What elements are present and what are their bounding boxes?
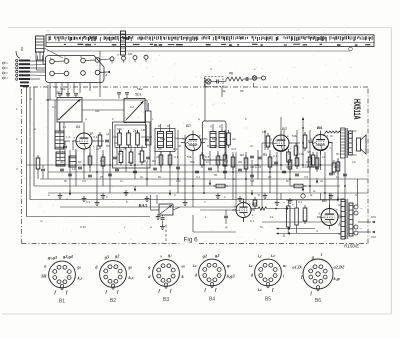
svg-text:1M: 1M (250, 179, 255, 183)
tube B6 (rectifier) (321, 209, 338, 226)
wire gang link (82, 109, 124, 111)
svg-text:8n: 8n (64, 179, 68, 183)
resistor R41 (101, 157, 105, 166)
resistor R50 (294, 184, 303, 188)
wire terminal drops (26, 87, 28, 217)
dial lamp L2 (252, 76, 256, 80)
resistor R10 (266, 136, 270, 147)
resistor R40b (98, 135, 102, 146)
svg-text:HX511A: HX511A (352, 99, 362, 120)
resistor R43 (216, 156, 220, 165)
resistor R40 (88, 156, 92, 165)
svg-text:g3: g3 (104, 255, 110, 260)
tuning capacitor gang C1b (124, 99, 145, 123)
resistor R47 (315, 158, 319, 167)
svg-text:0,1: 0,1 (93, 135, 98, 139)
capacitor C20 (68, 173, 72, 175)
dial lamp L3 (262, 76, 266, 80)
svg-text:0,1: 0,1 (196, 175, 201, 179)
svg-text:2M: 2M (238, 160, 243, 164)
wires lamp circuit drops (208, 87, 210, 88)
resistor R13 (303, 135, 307, 148)
resistor R15 (311, 155, 315, 165)
svg-text:2n: 2n (140, 175, 144, 179)
capacitor C41 (78, 166, 82, 168)
svg-text:i.c: i.c (249, 263, 253, 268)
svg-text:R150/E: R150/E (344, 244, 360, 249)
wires dial drum to switch (36, 60, 38, 70)
svg-text:50k: 50k (187, 155, 192, 159)
svg-text:3E2: 3E2 (60, 87, 66, 91)
svg-text:8: 8 (283, 234, 285, 238)
coupling coil L5 (69, 156, 76, 167)
wires around B5 (200, 209, 236, 211)
svg-text:5E3: 5E3 (160, 137, 166, 141)
wire osc area (59, 122, 61, 131)
svg-text:6,3: 6,3 (86, 200, 91, 204)
svg-text:10n: 10n (299, 152, 304, 156)
wires band switch drops (49, 83, 51, 101)
svg-text:25: 25 (100, 175, 104, 179)
svg-text:1n: 1n (120, 179, 124, 183)
socket B6 spigot (316, 272, 320, 276)
svg-text:s: s (159, 254, 162, 259)
svg-text:C5: C5 (100, 159, 104, 163)
capacitor C before B5 (224, 215, 228, 217)
wires inside cluster (119, 130, 121, 133)
capacitor C47 (238, 168, 242, 170)
svg-text:x: x (167, 124, 169, 128)
resistor R3 (118, 133, 122, 145)
resistor R4 (127, 133, 131, 145)
svg-text:i.c: i.c (271, 253, 275, 258)
svg-text:x: x (210, 125, 212, 129)
wires around B1 (83, 122, 85, 129)
fuse F1 (301, 194, 305, 198)
band switch S1 (46, 56, 105, 83)
resistor R dial (227, 77, 244, 81)
svg-text:4n7: 4n7 (231, 147, 236, 151)
svg-text:4n7: 4n7 (272, 163, 277, 167)
svg-text:3H: 3H (40, 274, 47, 279)
wire bus 3 (40, 178, 368, 180)
svg-text:C15: C15 (286, 165, 292, 169)
resistor R49 (216, 184, 225, 188)
wire AVC bus (27, 164, 341, 166)
svg-text:1n: 1n (114, 141, 118, 145)
wire bus 2 (48, 171, 310, 173)
tube B5 (rectifier driver) (236, 203, 251, 218)
capacitor C22 (115, 168, 119, 170)
resistor R22 (223, 155, 227, 166)
tube socket B3 (underside view) (147, 253, 185, 304)
svg-text:5k: 5k (158, 175, 162, 179)
svg-text:40: 40 (60, 160, 64, 164)
faint print artifacts (243, 29, 245, 32)
svg-text:R9: R9 (263, 153, 267, 157)
svg-text:0,1: 0,1 (207, 144, 212, 148)
svg-text:B5: B5 (265, 297, 271, 303)
svg-text:10: 10 (322, 155, 326, 159)
down arrows (chassis returns) (69, 190, 71, 195)
capacitor C7 (113, 156, 117, 158)
svg-text:1n: 1n (336, 175, 340, 179)
svg-text:x: x (219, 125, 221, 129)
svg-text:0,5: 0,5 (304, 175, 309, 179)
svg-text:30: 30 (254, 163, 258, 167)
capacitor C14 (274, 161, 278, 163)
svg-text:C2: C2 (130, 105, 134, 109)
capacitor C23 (153, 167, 157, 169)
wire antenna input curve (16, 51, 20, 58)
oscillator coil L3 (55, 131, 64, 149)
capacitor C40b (105, 139, 109, 141)
svg-text:1/0: 1/0 (128, 52, 133, 56)
capacitor C46 (223, 170, 227, 172)
svg-text:50: 50 (336, 152, 340, 156)
svg-text:25n: 25n (334, 165, 339, 169)
capacitor C48 (282, 170, 286, 172)
resistor R6 (119, 152, 123, 163)
dial lamp L1 (dashed box) (205, 77, 224, 87)
capacitor C30 (electrolytic) (287, 206, 291, 227)
svg-text:B6: B6 (315, 298, 321, 304)
dial scale assembly (46, 35, 374, 47)
svg-text:1,2: 1,2 (66, 135, 71, 139)
svg-text:0,1: 0,1 (306, 160, 311, 164)
scan noise (287, 147, 290, 149)
svg-text:g2: g2 (90, 131, 94, 135)
svg-text:B4: B4 (209, 297, 215, 303)
wire heater bus (60, 206, 236, 208)
svg-text:30: 30 (158, 147, 162, 151)
svg-text:4: 4 (106, 74, 108, 78)
capacitor C51 (343, 173, 347, 175)
svg-text:g2: g2 (214, 253, 220, 258)
svg-text:2M: 2M (262, 130, 267, 134)
svg-text:+: + (283, 201, 285, 205)
svg-text:R6: R6 (152, 159, 156, 163)
svg-text:b: b (245, 117, 247, 121)
resistor R7 (129, 152, 133, 163)
svg-text:Fig 6: Fig 6 (184, 236, 199, 243)
resistor R11 (287, 152, 291, 162)
wire mains area (262, 221, 330, 223)
svg-text:k,g3: k,g3 (227, 274, 235, 279)
IF transformer T1 (155, 129, 175, 152)
svg-text:50k: 50k (292, 134, 297, 138)
svg-text:5k: 5k (313, 165, 317, 169)
svg-text:i.c: i.c (193, 263, 197, 268)
svg-text:a2,D2: a2,D2 (334, 265, 346, 270)
svg-text:5E2: 5E2 (137, 87, 143, 91)
chassis border (dash-dot) (21, 89, 23, 244)
svg-text:L1: L1 (63, 125, 67, 129)
svg-text:5E4: 5E4 (212, 137, 218, 141)
resistor R25 (308, 157, 312, 167)
svg-text:1n: 1n (206, 160, 210, 164)
svg-text:g2: g2 (202, 254, 208, 259)
svg-text:2n: 2n (128, 160, 132, 164)
wire mains arrows (276, 228, 315, 230)
svg-text:6n: 6n (118, 152, 122, 156)
page scan edges (390, 28, 392, 315)
wires transformer (338, 204, 341, 206)
junction dots (47, 99, 49, 101)
resistor R16 (332, 163, 336, 172)
antenna terminal strip (19, 60, 30, 62)
svg-text:0,1: 0,1 (273, 154, 278, 158)
svg-text:L2: L2 (72, 167, 76, 171)
svg-text:5n: 5n (260, 225, 264, 229)
wire ground bus (48, 192, 368, 194)
svg-text:0,5: 0,5 (205, 155, 210, 159)
svg-text:osc: osc (95, 109, 100, 113)
wires terminal strip to band switch (30, 60, 46, 62)
wire HT riser with arrow (302, 118, 304, 166)
wires speaker (352, 130, 357, 132)
resistor R21 (168, 155, 172, 165)
svg-text:20: 20 (268, 175, 272, 179)
svg-text:1k: 1k (270, 215, 274, 219)
svg-text:det: det (232, 137, 236, 141)
wires around B2 (175, 138, 185, 139)
svg-text:4k: 4k (232, 177, 236, 181)
dial cord (47, 50, 350, 52)
svg-text:g2: g2 (114, 254, 120, 259)
mains leads through border (358, 221, 371, 223)
svg-text:2k: 2k (96, 147, 100, 151)
svg-text:0,5: 0,5 (308, 139, 313, 143)
svg-text:R8: R8 (240, 153, 244, 157)
oscillator coil L4 (56, 152, 65, 166)
tube B2 (IF amp) (185, 135, 201, 151)
resistor R42 (200, 155, 204, 165)
svg-text:0,1: 0,1 (173, 147, 178, 151)
capacitor C40 (60, 168, 64, 170)
capacitor C45 (195, 170, 199, 172)
svg-text:S: S (355, 193, 357, 197)
resistor R44 (231, 157, 235, 167)
svg-text:25: 25 (214, 144, 218, 148)
svg-text:E: E (34, 127, 36, 131)
svg-text:i.c: i.c (258, 254, 262, 259)
resistor R5 (136, 133, 140, 145)
trimmers above C1b (117, 92, 121, 94)
capacitor C44 (176, 166, 180, 168)
svg-text:B1: B1 (59, 299, 65, 305)
svg-text:2k: 2k (133, 129, 137, 133)
grid stopper coil to transformer (325, 131, 341, 133)
svg-text:k,s: k,s (129, 275, 134, 280)
decoupling cluster box (113, 122, 151, 168)
svg-text:C1: C1 (52, 105, 56, 109)
wire bus 5 (30, 199, 345, 201)
svg-text:0,1: 0,1 (174, 155, 179, 159)
screened resistor (146, 111, 152, 145)
wires around B3 (280, 117, 282, 131)
svg-text:BA3: BA3 (138, 203, 148, 208)
resistor R23 (244, 158, 248, 169)
svg-text:1M: 1M (141, 128, 146, 132)
svg-text:50: 50 (214, 173, 218, 177)
capacitor inside lamp box (216, 80, 218, 84)
dial drum (36, 36, 45, 52)
IF transformer T2 (screened) (203, 121, 227, 160)
tube B3 (detector/AF) (273, 135, 289, 151)
wires lower right (280, 193, 282, 200)
resistor R45 (288, 160, 292, 169)
switch arm arrow (100, 71, 107, 73)
svg-text:5k: 5k (222, 163, 226, 167)
svg-text:25: 25 (156, 155, 160, 159)
resistor R48 (336, 162, 340, 171)
wire left lower area (27, 216, 151, 218)
capacitor C50 (329, 172, 333, 174)
tube socket B2 (underside view) (95, 254, 133, 305)
mains terminals (354, 205, 358, 209)
svg-text:#6: #6 (229, 72, 233, 76)
svg-text:2n: 2n (250, 144, 254, 148)
capacitor C25 (250, 174, 254, 176)
resistor R12 (294, 146, 298, 155)
loudspeaker LS (357, 138, 361, 151)
capacitor C26 (315, 166, 319, 168)
capacitor C42 (108, 173, 112, 175)
svg-text:8n: 8n (138, 152, 142, 156)
svg-text:x: x (158, 124, 160, 128)
capacitor C12 (250, 155, 254, 157)
wires around B4 (320, 151, 322, 170)
capacitor C21 (88, 174, 92, 176)
svg-text:a: a (198, 117, 200, 121)
output transformer T3 (341, 128, 346, 158)
resistor R30b (253, 200, 257, 206)
band switch extra contacts (110, 57, 114, 61)
wire osc line (46, 99, 147, 101)
wire detector drop lines (235, 152, 237, 207)
dial pointer (121, 31, 126, 55)
svg-text:30: 30 (178, 144, 182, 148)
power transformer T4 (341, 199, 345, 239)
capacitor C43 (133, 170, 137, 172)
svg-text:8n: 8n (286, 179, 290, 183)
svg-text:k,s: k,s (78, 276, 83, 281)
svg-text:R14: R14 (302, 165, 308, 169)
capacitor C dial (245, 77, 247, 81)
svg-text:1M: 1M (266, 144, 271, 148)
wire bus 4 (34, 185, 340, 187)
svg-text:+: + (292, 203, 294, 207)
mechanical link (dashed) (165, 225, 167, 243)
resistor R20 (159, 155, 163, 165)
svg-text:la: la (310, 193, 313, 197)
svg-text:B4: B4 (317, 125, 323, 130)
svg-text:B3: B3 (163, 297, 169, 303)
resistor R46 (295, 158, 299, 166)
capacitor C24 (208, 167, 212, 169)
svg-text:LS: LS (352, 160, 356, 164)
trimmers above C1a (58, 93, 62, 95)
svg-text:g2,g4: g2,g4 (62, 254, 74, 259)
tuning capacitor gang C1a (57, 98, 82, 123)
tube socket B4 (underside view) (193, 253, 236, 303)
svg-text:50k: 50k (190, 160, 195, 164)
svg-text:1k: 1k (288, 152, 292, 156)
svg-text:g1: g1 (106, 132, 110, 136)
svg-text:0,1: 0,1 (298, 200, 303, 204)
svg-text:6B: 6B (240, 89, 244, 93)
tube B1 (mixer) (76, 133, 92, 149)
svg-text:SEt: SEt (117, 127, 122, 131)
svg-text:gr: gr (225, 225, 228, 229)
svg-text:50: 50 (78, 160, 82, 164)
svg-text:0,1: 0,1 (250, 219, 255, 223)
tube socket B5 (underside view) (249, 253, 287, 303)
wire lamp to resistor (218, 81, 226, 83)
svg-text:g1,g3: g1,g3 (47, 255, 58, 260)
resistor R8 (140, 151, 144, 162)
tube B4 (output) (313, 135, 329, 151)
svg-text:20: 20 (57, 117, 61, 121)
svg-text:10n: 10n (176, 179, 181, 183)
capacitor C6 (145, 138, 149, 140)
svg-text:6,3V: 6,3V (80, 225, 86, 229)
svg-text:3E1: 3E1 (56, 91, 63, 95)
ground symbols (59, 193, 61, 196)
svg-text:5E1: 5E1 (135, 93, 142, 97)
resistor R30 (zigzag) (258, 207, 267, 211)
capacitor C8 (146, 156, 150, 158)
capacitor C13 (258, 156, 262, 158)
resistor R24 (268, 157, 272, 167)
svg-text:2k: 2k (320, 179, 324, 183)
resistor R9a (227, 133, 231, 145)
capacitor C31 (electrolytic) (295, 208, 299, 225)
svg-text:4E: 4E (222, 89, 226, 93)
padder capacitor (63, 145, 67, 147)
svg-text:i.c: i.c (258, 287, 262, 292)
svg-text:4: 4 (316, 229, 318, 233)
left return corner components (36, 158, 40, 169)
vertical wires (47, 85, 49, 179)
svg-text:0,1: 0,1 (144, 159, 149, 163)
svg-text:0,5: 0,5 (82, 179, 87, 183)
resistor R31 (303, 208, 307, 221)
antenna posts at edge (2, 62, 4, 64)
capacitor C49 (295, 173, 299, 175)
tube socket B1 (underside view) (40, 254, 83, 305)
svg-text:3n: 3n (330, 134, 334, 138)
tube socket B6 (underside view) (292, 252, 345, 304)
svg-text:A: A (30, 97, 32, 101)
svg-text:B2: B2 (110, 298, 116, 304)
